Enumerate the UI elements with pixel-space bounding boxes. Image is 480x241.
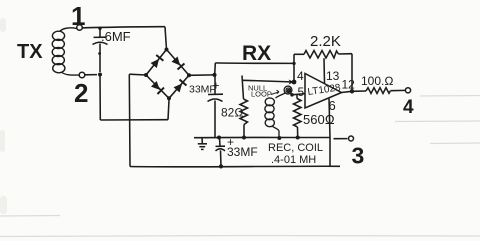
pin 13 wire	[323, 58, 326, 83]
svg-text:1: 1	[71, 1, 85, 31]
svg-text:100.Ω: 100.Ω	[361, 74, 394, 88]
lower ground rail	[130, 165, 340, 168]
bridge corner junctions	[144, 48, 191, 101]
svg-text:12: 12	[342, 78, 356, 92]
resistor R4 100ohm	[366, 88, 405, 94]
ground rail (signal ground)	[194, 136, 330, 138]
diode D3 (left-bottom arm)	[151, 81, 164, 94]
svg-text:4: 4	[297, 69, 304, 83]
wire T2 return to bridge bottom	[100, 75, 169, 121]
capacitor C2 33MF	[208, 75, 224, 137]
svg-text:33MF: 33MF	[227, 145, 258, 159]
wire pin4 input (from 82ohm top corner to op-amp)	[242, 80, 294, 82]
terminal 3 wire	[334, 138, 348, 140]
ground symbol	[198, 138, 207, 150]
svg-text:TX: TX	[17, 41, 43, 63]
terminal 1	[77, 25, 83, 31]
op-amp U1 LT1028	[305, 74, 342, 109]
resistor R1 82ohm	[240, 76, 248, 140]
label NULL LOOP	[248, 84, 279, 99]
terminal 4	[405, 88, 410, 93]
wire node up and right (top feed wire)	[215, 63, 294, 75]
svg-text:.4-01 MH: .4-01 MH	[271, 154, 316, 166]
diode D1 (left-top arm)	[150, 55, 163, 68]
TX coil L1	[52, 28, 79, 75]
capacitor C3 +33MF	[216, 136, 226, 169]
svg-text:RX: RX	[242, 42, 271, 65]
svg-text:13: 13	[326, 69, 340, 83]
feedback right vertical	[350, 54, 354, 94]
terminal 3	[349, 136, 354, 141]
faint scan artifact lines	[0, 96, 480, 237]
junction dot top wire / feedback	[292, 62, 295, 65]
faint paper smudges	[0, 18, 7, 214]
svg-text:+: +	[213, 79, 220, 93]
svg-text:2: 2	[74, 78, 88, 108]
diode D2 (top-right arm)	[171, 56, 184, 69]
null loop coil symbol	[284, 86, 292, 94]
wire terminal2 node	[85, 73, 102, 77]
REC coil L2	[265, 93, 286, 140]
pin4 junction dot	[292, 80, 297, 85]
resistor R3 2.2K feedback	[294, 51, 352, 59]
svg-text:5: 5	[298, 85, 305, 99]
diode D4 (bottom-right arm)	[173, 79, 186, 92]
output wire pin12	[342, 91, 367, 93]
bridge rectifier diamond	[146, 50, 189, 99]
wire bridge left to lower rail	[129, 74, 146, 166]
wire terminal1 to bridge top	[82, 27, 166, 50]
terminal 2	[79, 72, 85, 78]
svg-text:4: 4	[403, 97, 414, 118]
svg-text:LOOP: LOOP	[251, 90, 272, 99]
resistor R2 560ohm	[294, 95, 302, 140]
svg-text:.6MF: .6MF	[101, 29, 131, 44]
pin 6 wire down	[329, 98, 330, 166]
svg-text:3: 3	[352, 143, 365, 169]
feedback left vertical	[293, 54, 295, 82]
svg-text:82Ω: 82Ω	[221, 106, 244, 120]
capacitor C1 .6MF	[93, 27, 108, 72]
wire bridge right to node	[189, 73, 217, 77]
svg-text:2.2K: 2.2K	[310, 33, 341, 50]
svg-text:REC, COIL: REC, COIL	[268, 142, 323, 154]
wire pin5 input	[290, 93, 305, 97]
